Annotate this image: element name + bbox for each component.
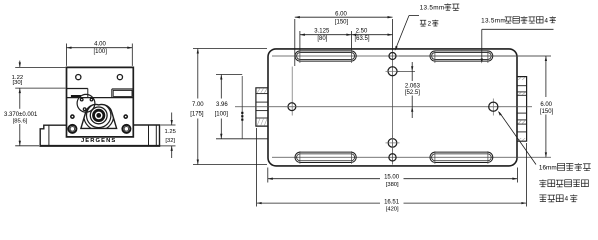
svg-text:13.5mm: 13.5mm <box>420 5 445 12</box>
svg-text:4: 4 <box>565 196 569 203</box>
knob boss outline <box>81 104 117 128</box>
base bottom edge <box>39 145 160 147</box>
jaw step left vertical <box>87 89 89 98</box>
svg-text:2: 2 <box>428 21 432 28</box>
svg-text:[150]: [150] <box>540 109 554 115</box>
svg-text:16.51: 16.51 <box>384 199 400 205</box>
vise body front plate <box>67 67 134 136</box>
flange hole <box>83 107 87 111</box>
svg-text:1.25: 1.25 <box>165 129 176 135</box>
bottom hole row centerline <box>272 156 551 158</box>
svg-text:[32]: [32] <box>165 138 175 144</box>
leader to top-right slot <box>482 28 554 30</box>
svg-text:3.96: 3.96 <box>216 102 228 108</box>
dimension 16.51 [420] <box>256 128 258 207</box>
plate vertical centerline <box>392 50 394 165</box>
mounting slot inner top <box>297 53 355 60</box>
mounting slot inner bottom <box>297 154 355 161</box>
plate horizontal centerline <box>235 106 532 108</box>
flange hole <box>90 98 94 102</box>
svg-text:6.00: 6.00 <box>335 11 347 17</box>
side screw <box>123 114 128 119</box>
hole A 13.5mm top <box>389 53 396 60</box>
knob dark ring <box>92 109 105 122</box>
slot arc tick bottom <box>299 151 301 164</box>
base mount ring <box>67 124 77 134</box>
dimension 6.00 [150] right <box>399 55 551 57</box>
base right line 1 <box>148 125 150 146</box>
svg-text:[63.5]: [63.5] <box>354 36 369 42</box>
mounting slot inner bottom <box>432 154 492 161</box>
svg-text:[100]: [100] <box>94 49 108 55</box>
svg-text:2.50: 2.50 <box>356 29 368 35</box>
dimension 4.00 [100] <box>66 44 68 66</box>
svg-text:JERGENS: JERGENS <box>81 138 116 144</box>
base mount ring inner <box>70 127 75 132</box>
dimension 3.96 [100] <box>216 74 242 76</box>
svg-text:[380]: [380] <box>386 182 399 188</box>
side screw <box>70 114 75 119</box>
svg-text:4.00: 4.00 <box>94 42 106 48</box>
vise base left part <box>40 125 66 146</box>
slot arc tick bottom <box>350 151 352 164</box>
base left step line <box>48 125 50 146</box>
svg-text:[175]: [175] <box>190 112 204 118</box>
svg-text:4: 4 <box>545 18 549 25</box>
slot arc tick top <box>434 50 436 63</box>
dimension 7.00 [175] <box>193 48 267 50</box>
base mount ring <box>121 124 131 134</box>
left clamp tab <box>256 88 268 126</box>
dimension 15.00 [380] <box>267 168 269 183</box>
leader to right 16mm hole <box>499 112 536 164</box>
hole B 16mm <box>388 67 397 76</box>
svg-text:[150]: [150] <box>335 19 349 25</box>
mounting slot outer bottom <box>430 152 493 162</box>
vise top hole right <box>117 75 122 80</box>
jaw parting line left <box>67 88 88 90</box>
vise top hole left <box>76 75 81 80</box>
jaw bottom line <box>67 97 134 99</box>
svg-text:15.00: 15.00 <box>384 174 400 180</box>
phantom line of mating rail <box>241 76 243 139</box>
dimension 1.25 [32] <box>160 124 175 126</box>
svg-text:[420]: [420] <box>386 206 399 212</box>
mounting slot inner top <box>432 53 492 60</box>
hole C 16mm <box>388 139 397 148</box>
mounting slot outer top <box>295 51 356 61</box>
dimension 3.370±0.001 [85.6] <box>15 145 39 147</box>
slot arc tick bottom <box>434 151 436 164</box>
dimension 1.22 [30] <box>15 66 65 68</box>
slot arc tick top <box>350 50 352 63</box>
svg-text:[85.6]: [85.6] <box>13 118 28 124</box>
hole D 13.5mm bottom <box>389 154 396 161</box>
mounting slot outer bottom <box>295 152 356 162</box>
svg-text:13.5mm: 13.5mm <box>481 18 506 25</box>
right 16mm hole <box>489 102 498 111</box>
dimension 3.125 [80] <box>299 31 301 50</box>
svg-text:16mm: 16mm <box>539 164 557 171</box>
knob center <box>96 113 101 118</box>
svg-text:6.00: 6.00 <box>540 102 552 108</box>
base right line 2 <box>155 125 157 146</box>
left jaw dark insert <box>71 95 81 97</box>
dimension 2.50 [63.5] <box>351 34 392 36</box>
right jaw inner rect <box>113 90 132 96</box>
dimension 6.00 [150] top <box>294 19 296 66</box>
jaw step right vertical <box>111 89 113 98</box>
mounting slot outer top <box>430 51 493 61</box>
left hole vertical tick <box>291 67 293 116</box>
leader to hole A <box>409 15 419 17</box>
left 16mm hole <box>288 103 296 111</box>
knob outer ring <box>90 107 107 124</box>
flange hole <box>80 98 84 102</box>
dimension 2.063 [52.5] <box>397 70 415 72</box>
svg-text:[80]: [80] <box>317 36 327 42</box>
vise base right part <box>133 125 159 146</box>
slot arc tick bottom <box>487 151 489 164</box>
plate outline <box>268 49 517 166</box>
svg-text:7.00: 7.00 <box>192 102 204 108</box>
svg-text:[100]: [100] <box>215 112 229 118</box>
top hole row centerline <box>272 55 551 57</box>
svg-text:2.063: 2.063 <box>405 83 421 89</box>
svg-text:3.125: 3.125 <box>314 29 330 35</box>
right hole vertical tick <box>492 99 494 116</box>
slot arc tick top <box>487 50 489 63</box>
flange circle <box>77 94 95 112</box>
svg-text:[52.5]: [52.5] <box>405 90 420 96</box>
right clamp tab <box>517 77 527 142</box>
jaw parting line right <box>112 88 134 90</box>
slot arc tick top <box>299 50 301 63</box>
svg-text:3.370±0.001: 3.370±0.001 <box>4 112 38 118</box>
base mount ring inner <box>124 127 129 132</box>
svg-text:[30]: [30] <box>12 80 22 86</box>
